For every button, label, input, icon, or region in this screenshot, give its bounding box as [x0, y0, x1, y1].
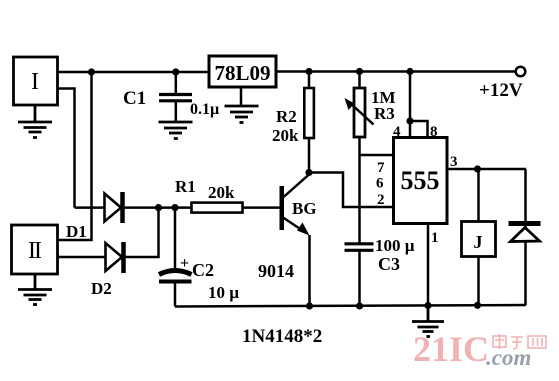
svg-text:1N4148*2: 1N4148*2	[242, 326, 322, 347]
diode VD freewheel	[509, 169, 541, 305]
svg-text:20k: 20k	[208, 183, 235, 202]
diode D2	[57, 208, 159, 273]
node junction C2 / R1	[171, 204, 178, 211]
wire rail down to box II supply	[57, 72, 92, 240]
wire 555 pin 8 bridge	[410, 121, 428, 138]
ground (box II)	[18, 274, 52, 305]
node junction rail / 555 pins 4-8	[406, 68, 413, 75]
svg-text:D2: D2	[91, 279, 112, 298]
svg-text:555: 555	[401, 166, 440, 195]
svg-text:1: 1	[431, 230, 439, 246]
terminal +12V (open circle)	[516, 67, 526, 77]
svg-text:D1: D1	[66, 222, 87, 241]
ground (main rail)	[412, 306, 444, 337]
svg-text:+12V: +12V	[479, 80, 523, 101]
wire top rail right (+12V to 78L09 input)	[275, 70, 516, 73]
sensor box I	[14, 57, 58, 105]
wire relay J bottom lead	[477, 257, 480, 306]
svg-text:J: J	[474, 232, 483, 252]
svg-text:100 µ: 100 µ	[375, 236, 415, 255]
svg-text:R2: R2	[276, 107, 297, 126]
svg-text:7: 7	[377, 160, 385, 176]
svg-text:9014: 9014	[258, 261, 294, 281]
wire 555 pin 3 output	[447, 168, 526, 171]
svg-text:BG: BG	[292, 199, 317, 218]
node junction relay J / rail	[474, 302, 481, 309]
wire box I output down to D1 anode	[57, 89, 75, 208]
node junction emitter / rail	[306, 302, 313, 309]
wire 555 pin 4 to rail	[409, 72, 412, 138]
regulator U 78L09	[209, 56, 276, 87]
svg-text:6: 6	[376, 176, 384, 192]
potentiometer R3	[345, 72, 374, 244]
svg-text:4: 4	[393, 124, 401, 140]
capacitor C3	[345, 244, 374, 306]
svg-text:3: 3	[450, 154, 458, 170]
node junction rail / R2	[305, 68, 312, 75]
IC U1 555	[394, 138, 448, 224]
relay J	[462, 222, 496, 257]
svg-text:C1: C1	[123, 88, 146, 109]
svg-text:R1: R1	[175, 177, 196, 196]
svg-text:10 µ: 10 µ	[208, 283, 239, 302]
svg-text:C2: C2	[192, 260, 214, 280]
ground (78L09)	[225, 106, 259, 123]
wire top rail left (78L09 output to box I)	[57, 71, 209, 74]
node junction C3 / rail	[356, 302, 363, 309]
wire 555 pin 1 to ground rail	[427, 224, 430, 306]
svg-text:I: I	[31, 69, 39, 95]
transistor BG 9014	[280, 174, 310, 306]
sensor box II	[12, 225, 58, 274]
wire collector to 555 pin 2	[309, 173, 394, 208]
svg-text:8: 8	[430, 124, 438, 140]
node junction rail / C1	[172, 68, 179, 75]
node junction rail / box II feed	[88, 68, 95, 75]
svg-text:0.1µ: 0.1µ	[190, 101, 219, 118]
ground (C1)	[159, 122, 193, 139]
svg-text:21IC: 21IC	[413, 329, 489, 369]
node junction rail / R3	[356, 68, 363, 75]
svg-text:78L09: 78L09	[214, 61, 270, 85]
resistor R2	[304, 72, 314, 173]
node junction pin3 / relay J	[474, 165, 481, 172]
ground (box I)	[18, 105, 52, 138]
wire bottom ground rail	[175, 305, 526, 307]
node junction pin1 / rail	[424, 302, 431, 309]
wire R3 wiper net to 555 pin 7	[360, 154, 394, 157]
capacitor C2 (electrolytic)	[159, 208, 192, 307]
wire relay J top lead	[477, 169, 480, 222]
node junction D1/D2 cathodes	[155, 204, 162, 211]
diode D1	[75, 192, 192, 223]
capacitor C1	[159, 72, 192, 121]
node junction pin4/pin8	[406, 117, 413, 124]
watermark 21IC.com	[413, 329, 546, 370]
node junction R2 / collector	[305, 169, 312, 176]
svg-text:20k: 20k	[272, 126, 299, 145]
svg-text:II: II	[28, 238, 42, 264]
wire 78L09 ground lead	[240, 87, 243, 105]
resistor R1	[192, 203, 280, 213]
svg-text:2: 2	[377, 192, 385, 208]
svg-text:.com: .com	[486, 345, 531, 370]
svg-text:+: +	[180, 255, 189, 272]
svg-text:C3: C3	[378, 254, 400, 274]
svg-text:R3: R3	[374, 104, 395, 123]
